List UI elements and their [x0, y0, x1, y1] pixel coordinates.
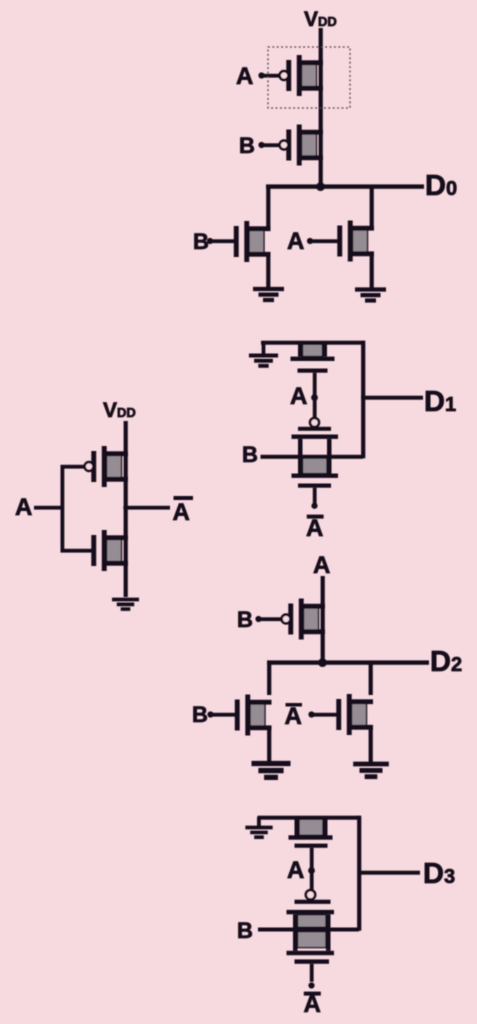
svg-text:A: A — [15, 494, 32, 521]
svg-text:A: A — [313, 552, 330, 579]
svg-text:A: A — [173, 499, 190, 526]
svg-text:A: A — [306, 515, 323, 542]
svg-text:A: A — [304, 991, 321, 1018]
svg-text:B: B — [242, 442, 258, 467]
svg-text:B: B — [192, 702, 208, 727]
svg-text:A: A — [287, 857, 304, 884]
svg-text:B: B — [193, 229, 209, 254]
svg-text:B: B — [237, 607, 253, 632]
svg-text:A: A — [285, 703, 302, 730]
svg-text:B: B — [239, 133, 255, 158]
svg-text:A: A — [287, 228, 304, 255]
svg-text:B: B — [237, 918, 253, 943]
svg-text:A: A — [236, 63, 253, 90]
svg-text:A: A — [290, 383, 307, 410]
